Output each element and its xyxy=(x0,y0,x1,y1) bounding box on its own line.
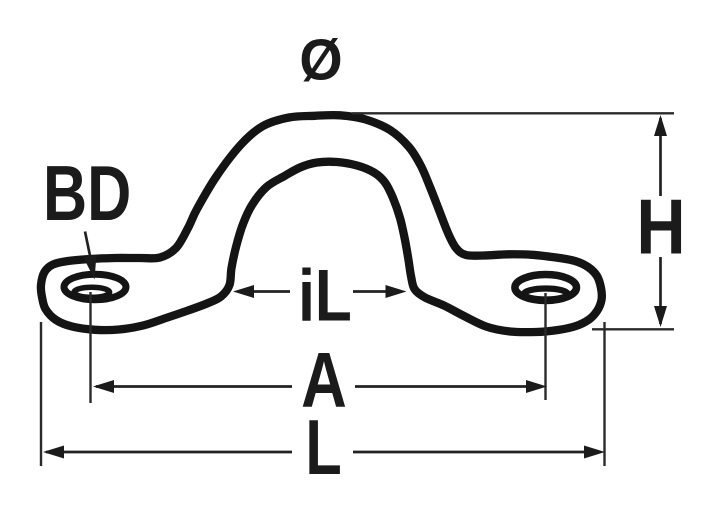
svg-text:BD: BD xyxy=(43,150,131,237)
svg-text:iL: iL xyxy=(298,255,352,337)
svg-text:Ø: Ø xyxy=(299,28,342,92)
svg-text:H: H xyxy=(636,183,685,270)
svg-text:L: L xyxy=(305,403,341,491)
